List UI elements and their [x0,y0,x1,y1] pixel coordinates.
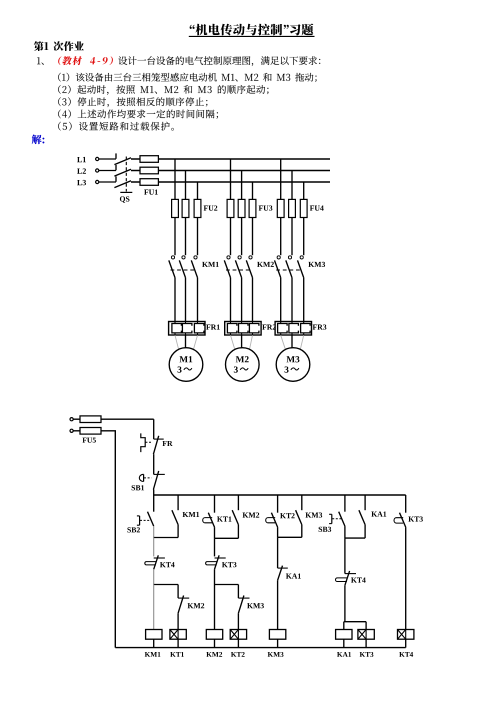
wire contactor to overload [280,278,282,322]
time-delay NC contact KT4 [145,555,175,569]
wire node bar branch2 [215,584,239,586]
contactor main contacts KM1 [169,256,219,278]
wire terminal2 to FU5 [73,430,116,432]
contact KM3 self-hold [296,495,323,537]
wire overload to motor right [300,335,304,353]
wire node to coil KM1 [153,585,155,630]
wire SB1 to top rail [153,490,155,496]
wire split to coil KT3 [365,622,367,630]
fuse FU4 [277,199,323,217]
wire KT4b to split [344,585,346,621]
wire branch3 to KA1 [277,537,279,568]
wire KT3 contact to coil KT4 [405,527,407,629]
coil designator labels [145,652,413,657]
contactor main contacts KM3 [275,256,326,278]
wire merge bar branch4 [345,537,365,539]
wire coil KT3 to bottom rail [365,639,367,647]
wire FR to SB1 [153,454,155,474]
wire SB3 to merge [344,526,346,538]
wire fuse to contactor [197,218,199,256]
fuse FU5 [80,416,101,443]
wire contactor to overload [174,278,176,322]
wire coil KM2 to bottom rail [214,639,216,647]
wire QS to bus L3 [131,181,330,183]
wire contactor to overload [230,278,232,322]
document title text [190,24,314,36]
coil KM2 [206,630,222,640]
coil KM1 [146,630,162,640]
wire top rail [154,494,406,496]
fuse FU3 [227,199,272,217]
wire KT2 to merge [277,527,279,537]
motor M2 [226,348,260,382]
wire branch1 to KT4 [153,538,155,557]
wire terminal1 to FU5 [73,418,154,420]
wire KT4 to node [153,569,155,584]
overload relay FR3 [275,322,326,336]
wire contactor to overload [303,278,305,322]
wire L1 terminal to QS [99,158,116,160]
wire coil KT4 to bottom rail [405,639,407,647]
coil KM3 [269,630,285,640]
wire tap L3 group2 [252,182,254,199]
wire fuse to contactor [230,218,232,256]
wire contactor to overload [241,278,243,322]
wire overload to motor [241,335,243,348]
wire contactor to overload [185,278,187,322]
wire KT3 to node [214,569,216,584]
wire left rail [114,431,116,648]
wire tap L1 group1 [174,159,176,199]
wire tap L3 group1 [197,182,199,199]
wire tap L2 group1 [185,171,187,200]
heading and problem statement text [34,41,84,51]
contact KM3 [238,596,263,614]
coil KT4 [398,630,414,640]
fuse FU1 [140,156,158,195]
wire fuse to contactor [252,218,254,256]
wire merge bar branch3 [278,536,302,538]
coil KA1 [336,630,352,640]
wire node to KM2 contact [177,585,179,599]
wire overload to motor right [193,335,198,353]
wire bottom rail [115,647,405,649]
wire coil KA1 to bottom rail [343,639,345,647]
coil KT3 [358,630,374,640]
wire contactor to overload [252,278,254,322]
wire contactor to overload [197,278,199,322]
fuse FU2 [172,199,218,217]
wire node to KM3 contact [237,585,239,599]
relay NC contact KA1 [278,566,301,581]
wire merge bar branch1 [154,537,178,539]
wire FU5 down to FR [153,419,155,439]
wire fuse to contactor [174,218,176,256]
time-delay NO contact KT3 [394,495,423,527]
wire coil KT2 to bottom rail [237,639,239,647]
stop button SB1 [132,471,165,490]
wire overload to motor [185,335,187,348]
wire L3 terminal to QS [99,181,116,183]
wire fuse to contactor [241,218,243,256]
wire KA1 to coil KM3 [277,580,279,629]
wire overload to motor [291,335,293,348]
wire merge bar branch2 [215,537,239,539]
coil KT2 [230,630,246,640]
wire overload to motor right [249,335,253,353]
wire branch2 to KT3 [214,538,216,556]
time-delay NC contact KT3 [206,555,237,569]
wire overload to motor left [175,335,180,353]
wire tap L3 group3 [303,182,305,199]
wire overload to motor left [231,335,236,353]
node L2 supply terminal [96,169,99,172]
wire split bar branch4 [344,621,366,623]
wire fuse to contactor [303,218,305,256]
contact KM2 self-hold [232,495,259,538]
wire SB2 to merge [153,526,155,537]
overload relay FR1 [169,322,220,336]
contact KM2 [178,596,204,614]
node L1 supply terminal [96,157,99,160]
wire QS to bus L2 [131,170,330,172]
contact KM1 self-hold [172,495,199,538]
wire QS to bus L1 [131,158,330,160]
time-delay NO contact KT1 [203,495,232,527]
wire tap L2 group2 [241,171,243,200]
wire contactor to overload [291,278,293,322]
contact KA1 self-hold [359,495,386,538]
time-delay NC contact KT4b [336,571,366,585]
wire fuse to contactor [185,218,187,256]
overload relay FR2 [225,322,276,336]
coil KT1 [170,630,186,640]
wire tap L1 group3 [280,159,282,199]
time-delay NO contact KT2 [266,495,295,527]
wire fuse to contactor [280,218,282,256]
wire KT1 to merge [214,527,216,538]
start button SB2 [127,495,153,532]
contactor main contacts KM2 [224,256,274,278]
motor M3 [276,348,310,382]
wire node bar branch1 [154,584,178,586]
wire L2 terminal to QS [99,170,116,172]
switch QS [114,153,132,202]
wire split to coil KA1 [343,622,345,630]
thermal relay NC contact FR [141,433,173,454]
wire fuse to contactor [291,218,293,256]
wire branch4 to KT4 [344,538,346,574]
wire coil KT1 to bottom rail [177,639,179,647]
wire overload to motor left [281,335,287,353]
motor M1 [169,348,203,382]
wire node to coil KM2 [214,585,216,630]
wire tap L2 group3 [291,171,293,200]
wire KM2 contact to coil KT1 [177,613,179,629]
wire coil KM3 to bottom rail [277,639,279,647]
wire tap L1 group2 [230,159,232,199]
node L3 supply terminal [96,180,99,183]
wire coil KM1 to bottom rail [153,639,155,647]
node control supply terminal 1 [70,418,73,421]
node control supply terminal 2 [70,429,73,432]
start button SB3 [319,495,345,532]
wire KM3 contact to coil KT2 [237,613,239,629]
